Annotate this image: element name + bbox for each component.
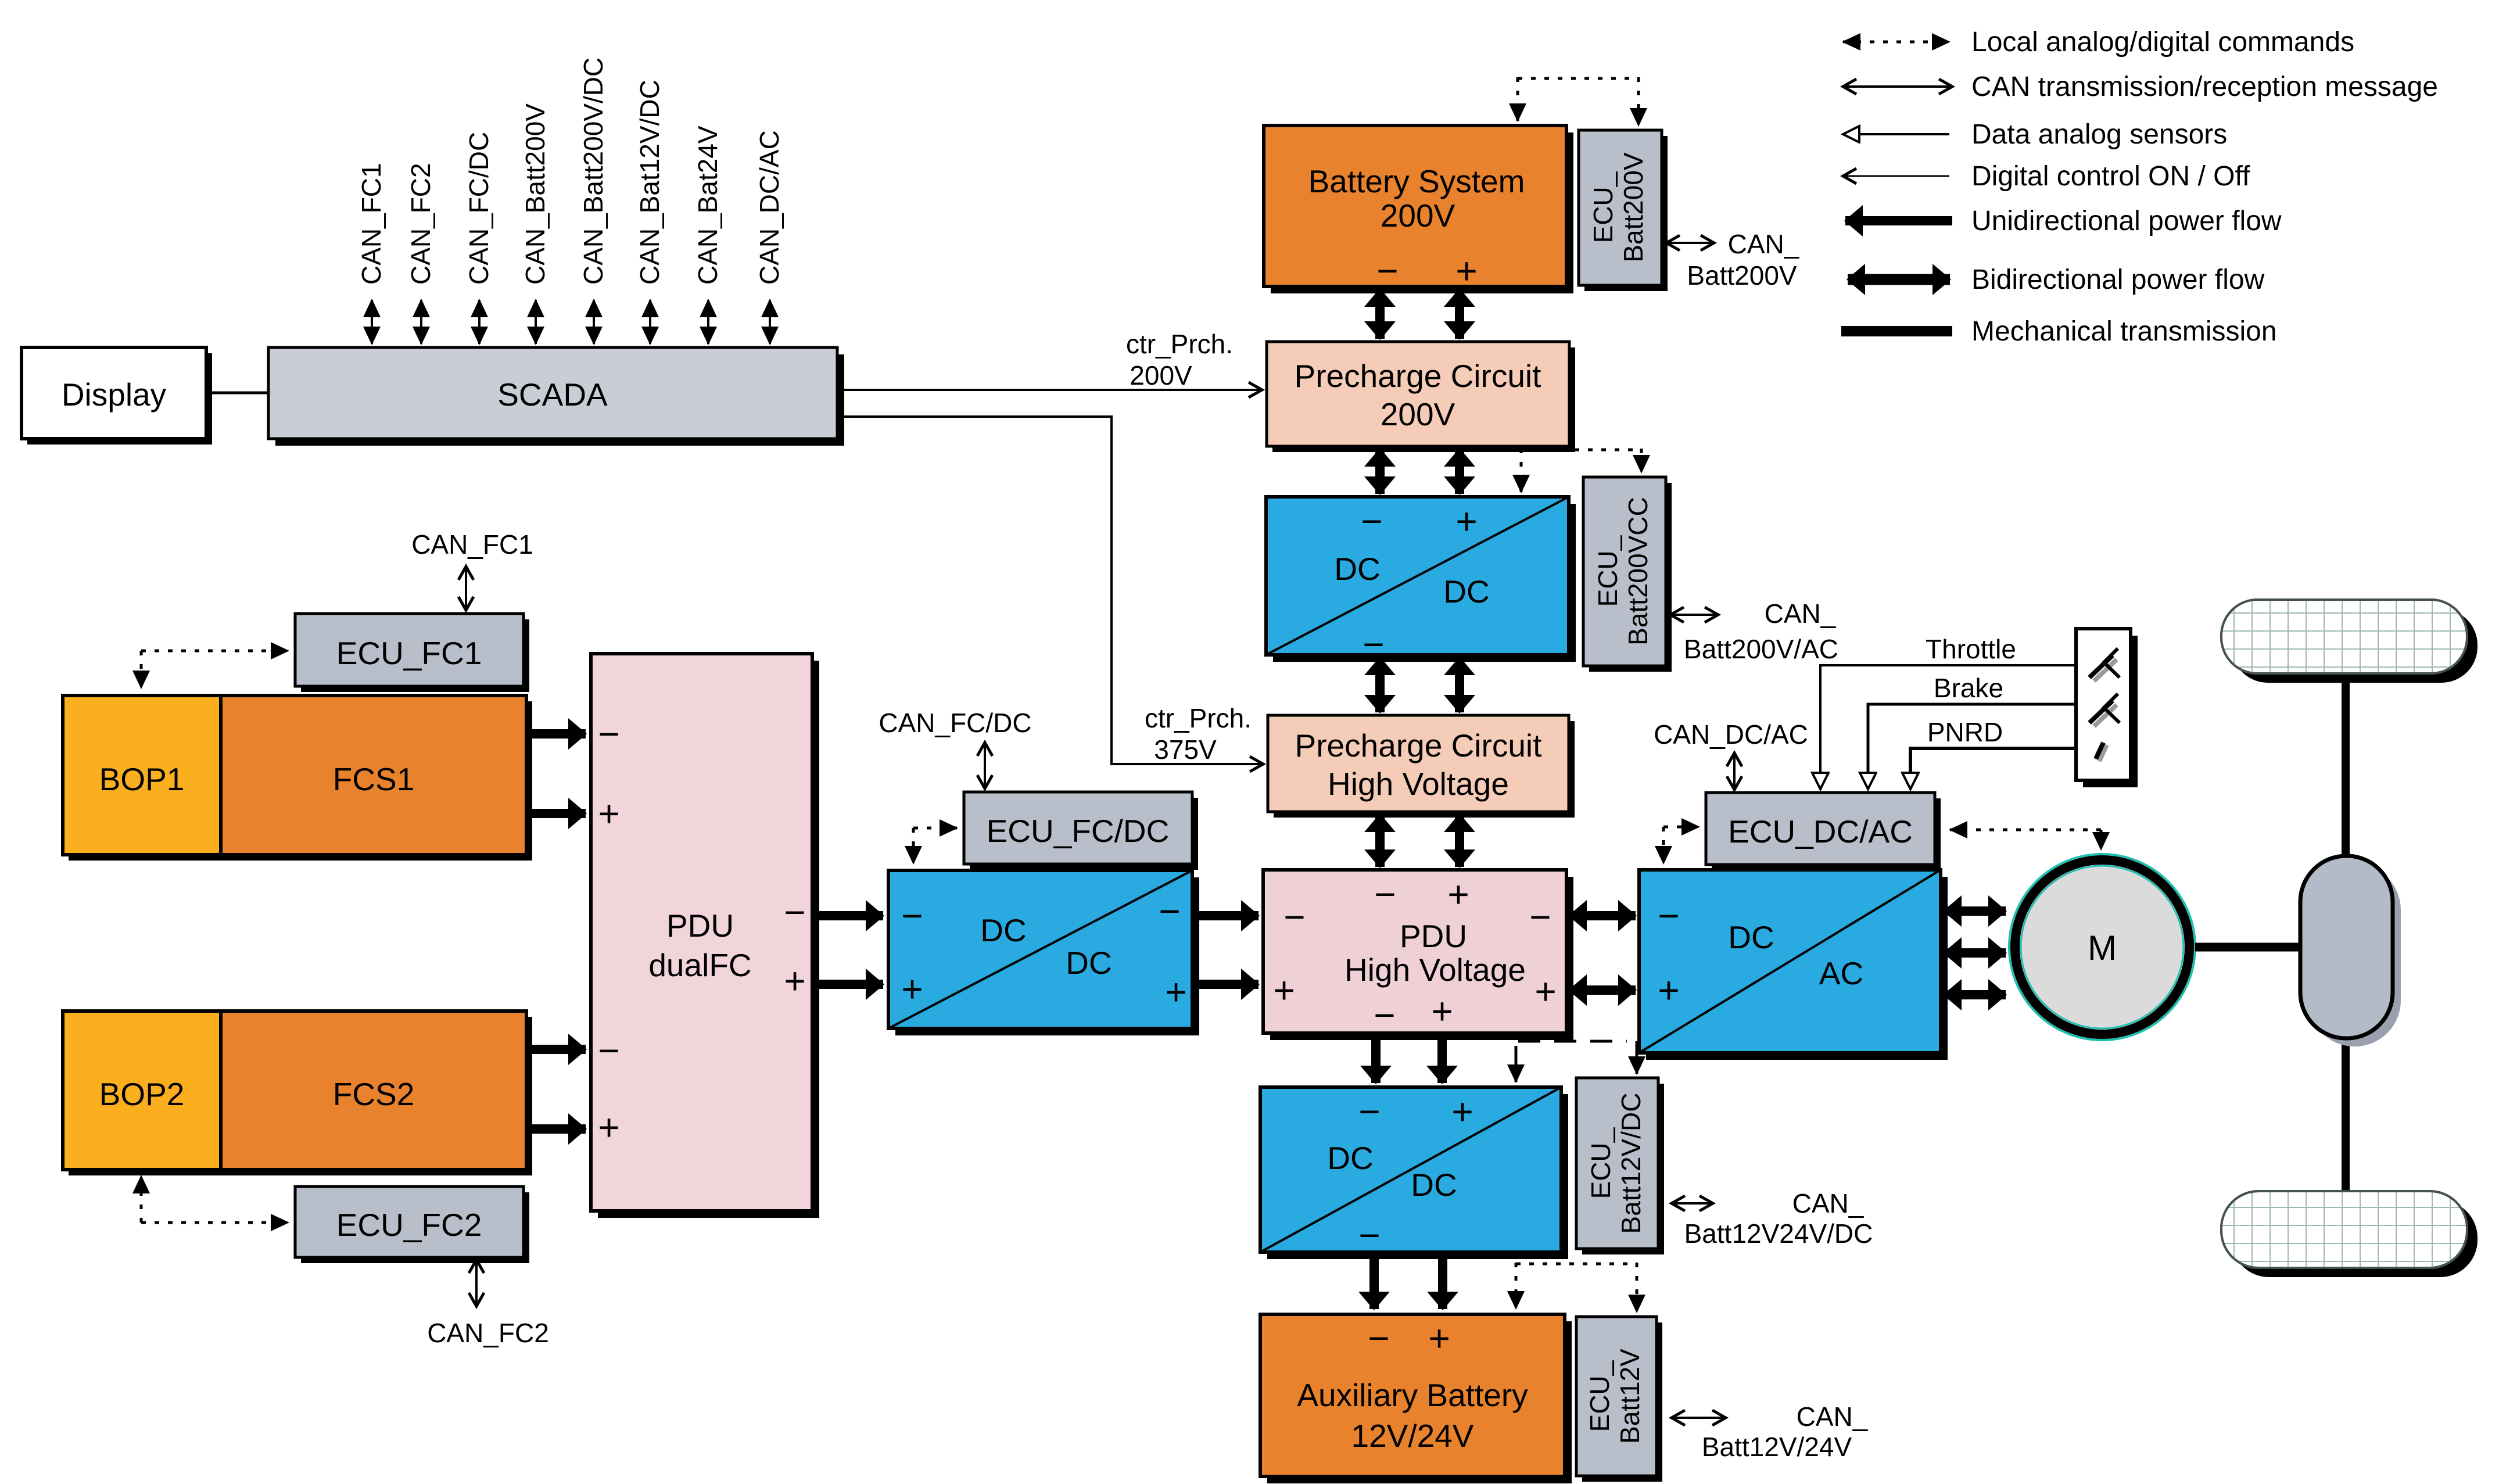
arrow: CAN_FC1 to ECU_FC1: [465, 567, 467, 610]
wheel front: [2221, 600, 2478, 683]
svg-text:Batt12V: Batt12V: [1615, 1349, 1645, 1444]
svg-text:375V: 375V: [1154, 734, 1217, 765]
block: Auxiliary Battery 12V/24V: [1260, 1314, 1572, 1483]
arrow: DC/DC 12V down to auxiliary battery right: [1438, 1259, 1447, 1309]
block: BOP2: [63, 1011, 532, 1175]
arrow: CAN_Batt200V/DC bus at SCADA: [593, 300, 595, 344]
arrow: CAN_FC2 bus at SCADA: [420, 300, 422, 344]
block: Precharge Circuit 200V: [1267, 342, 1575, 452]
svg-text:+: +: [784, 960, 805, 1002]
svg-text:Digital control ON / Off: Digital control ON / Off: [1971, 161, 2250, 192]
svg-text:Batt12V/DC: Batt12V/DC: [1616, 1093, 1646, 1234]
arrow: precharge 200V to DC/DC battery bidirectional left: [1375, 449, 1385, 494]
svg-text:CAN_FC/DC: CAN_FC/DC: [879, 708, 1031, 738]
svg-text:200V: 200V: [1381, 396, 1455, 432]
block: ECU_FC2: [295, 1187, 529, 1263]
block: ECU_FC1: [295, 614, 529, 692]
legend line: mechanical transmission: [1841, 326, 1952, 336]
svg-text:+: +: [1455, 250, 1477, 292]
block: FCS1: [221, 696, 526, 855]
wire: axle upper: [2342, 672, 2350, 856]
arrow: CAN_DC/AC bus at SCADA: [769, 300, 771, 344]
svg-text:Battery System: Battery System: [1308, 163, 1525, 199]
arrow: DC/DC 12V down to auxiliary battery left: [1369, 1259, 1379, 1309]
svg-text:+: +: [901, 968, 923, 1010]
arrow: FCS2 negative to PDU dualFC: [526, 1045, 586, 1054]
label: CAN_Batt200V: [1687, 229, 1799, 291]
label: ctr_Prch. 200V: [1126, 329, 1233, 390]
svg-text:+: +: [598, 1106, 619, 1148]
block: ECU_Batt12V/DC: [1576, 1078, 1664, 1254]
arrow: battery to precharge 200V bidirectional left: [1375, 289, 1385, 339]
svg-text:ECU_: ECU_: [1584, 1360, 1615, 1432]
svg-text:Brake: Brake: [1934, 673, 2003, 703]
arrow: ECU_Batt200VCC CAN link: [1670, 614, 1718, 616]
arrow: CAN_DC/AC to ECU_DC/AC: [1733, 753, 1736, 790]
svg-text:−: −: [901, 895, 923, 937]
block: ECU_Batt12V: [1576, 1317, 1662, 1482]
svg-text:Mechanical transmission: Mechanical transmission: [1971, 316, 2277, 347]
label: CAN_Batt200V/AC: [1684, 598, 1838, 664]
svg-text:CAN_DC/AC: CAN_DC/AC: [1654, 719, 1808, 750]
legend arrow: data analog sensors: [1843, 133, 1949, 135]
svg-text:CAN_FC/DC: CAN_FC/DC: [464, 132, 494, 285]
block: PDU dualFC: [591, 654, 819, 1218]
svg-text:−: −: [784, 891, 805, 933]
legend arrow: CAN transmission/reception: [1843, 85, 1952, 88]
svg-text:Precharge Circuit: Precharge Circuit: [1295, 358, 1541, 394]
svg-text:−: −: [598, 1030, 619, 1071]
arrow: ECU_FC2 to CAN_FC2: [475, 1260, 478, 1306]
svg-text:ECU_: ECU_: [1593, 535, 1623, 607]
svg-text:−: −: [1529, 896, 1551, 938]
svg-text:CAN_FC1: CAN_FC1: [411, 529, 533, 560]
svg-text:Precharge Circuit: Precharge Circuit: [1295, 727, 1542, 763]
svg-text:200V: 200V: [1381, 198, 1455, 234]
wire: throttle signal to ECU_DC/AC: [1820, 665, 2076, 789]
svg-text:PNRD: PNRD: [1927, 717, 2003, 747]
svg-text:Batt200VCC: Batt200VCC: [1623, 497, 1653, 646]
svg-text:DC: DC: [1411, 1167, 1457, 1203]
svg-text:+: +: [1451, 1091, 1473, 1132]
svg-text:CAN_FC2: CAN_FC2: [406, 163, 436, 285]
arrow: FCS1 positive to PDU dualFC: [526, 809, 586, 818]
svg-text:+: +: [1165, 971, 1186, 1013]
label: CAN_Batt12V24V/DC: [1684, 1188, 1873, 1249]
svg-text:CAN_: CAN_: [1792, 1188, 1865, 1218]
svg-text:CAN_Bat12V/DC: CAN_Bat12V/DC: [634, 80, 665, 285]
svg-text:200V: 200V: [1130, 360, 1192, 390]
wire: mechanical shaft motor to differential: [2195, 943, 2300, 952]
svg-text:−: −: [1368, 1317, 1389, 1359]
svg-text:+: +: [1447, 873, 1469, 915]
arrow: DC/DC FC plus to PDU HV: [1192, 980, 1259, 989]
arrow: battery to precharge 200V bidirectional right: [1455, 289, 1464, 339]
svg-text:DC: DC: [1728, 919, 1774, 955]
svg-text:Batt200V/AC: Batt200V/AC: [1684, 634, 1838, 664]
block: ECU_FC/DC: [964, 792, 1198, 870]
svg-text:Unidirectional power flow: Unidirectional power flow: [1971, 206, 2282, 236]
arrow: CAN_Bat12V/DC bus at SCADA: [649, 300, 651, 344]
arrow: precharge HV to PDU HV bidirectional right: [1455, 815, 1464, 867]
svg-text:Batt12V24V/DC: Batt12V24V/DC: [1684, 1218, 1873, 1249]
svg-text:−: −: [1374, 873, 1396, 915]
block: ECU_Batt200VCC: [1583, 477, 1672, 672]
svg-text:BOP1: BOP1: [99, 761, 185, 797]
block: DC/DC converter 12V: [1260, 1087, 1568, 1259]
svg-text:CAN_DC/AC: CAN_DC/AC: [754, 130, 784, 285]
svg-text:Auxiliary Battery: Auxiliary Battery: [1297, 1377, 1528, 1413]
svg-text:−: −: [1283, 896, 1305, 938]
svg-text:+: +: [598, 793, 619, 834]
block: ECU_DC/AC: [1706, 793, 1941, 870]
wire: axle lower: [2342, 1038, 2350, 1196]
arrow: DC/AC to motor phase 3: [1944, 990, 2006, 999]
svg-text:dualFC: dualFC: [648, 947, 751, 983]
wire: dotted command to DC/DC battery and ECU_Batt200VCC: [1521, 449, 1641, 492]
block: Display: [21, 347, 212, 445]
block: DC/DC converter battery side: [1266, 497, 1576, 665]
svg-text:Batt200V: Batt200V: [1687, 260, 1797, 291]
svg-text:ECU_FC1: ECU_FC1: [336, 635, 482, 671]
svg-text:Batt200V: Batt200V: [1618, 152, 1648, 263]
svg-text:+: +: [1431, 990, 1453, 1032]
arrow: PDU HV to DC/AC bidirectional minus: [1569, 911, 1636, 920]
arrow: CAN_Bat24V bus at SCADA: [707, 300, 709, 344]
svg-text:High Voltage: High Voltage: [1344, 952, 1526, 988]
svg-text:ECU_: ECU_: [1586, 1127, 1616, 1199]
svg-text:+: +: [1273, 969, 1295, 1011]
wire: ctr_Prch 375V control line: [837, 417, 1263, 764]
wire: dotted command to ECU_FC/DC: [913, 828, 957, 863]
svg-text:−: −: [1376, 250, 1398, 292]
svg-text:High Voltage: High Voltage: [1328, 766, 1509, 802]
svg-text:DC: DC: [1066, 945, 1112, 981]
svg-text:ECU_FC/DC: ECU_FC/DC: [987, 813, 1170, 849]
svg-text:DC: DC: [1327, 1140, 1373, 1176]
wire: dotted command to Battery System and ECU_Batt200V: [1518, 77, 1638, 126]
svg-text:DC: DC: [1443, 573, 1489, 610]
arrow: PDU dualFC minus to DC/DC FC: [812, 911, 883, 920]
svg-text:−: −: [1358, 1091, 1380, 1132]
motor M: [2009, 854, 2195, 1040]
arrow: PDU HV down to DC/DC 12V right: [1437, 1040, 1447, 1083]
arrow: PDU HV to DC/AC bidirectional plus: [1569, 985, 1636, 995]
block: pedal unit: [2076, 629, 2138, 787]
arrow: ECU_Batt200V CAN link: [1666, 242, 1714, 244]
svg-text:Bidirectional power flow: Bidirectional power flow: [1971, 264, 2265, 295]
arrow: CAN_Batt200V bus at SCADA: [535, 300, 537, 344]
arrow: CAN_FC/DC bus at SCADA: [478, 300, 481, 344]
svg-text:Display: Display: [62, 377, 167, 413]
wire: Display to SCADA: [206, 392, 268, 395]
block: BOP1: [63, 696, 532, 861]
legend arrow: unidirectional power flow: [1845, 216, 1952, 225]
arrow: ECU_Batt12V CAN link: [1672, 1417, 1726, 1419]
svg-text:12V/24V: 12V/24V: [1351, 1418, 1473, 1454]
legend arrow: digital control: [1843, 175, 1949, 177]
block: FCS2: [221, 1011, 526, 1170]
legend arrow: local analog/digital commands: [1843, 41, 1949, 44]
svg-text:ctr_Prch.: ctr_Prch.: [1126, 329, 1233, 359]
wire: PNRD signal to ECU_DC/AC: [1910, 748, 2076, 789]
arrow: DC/DC battery to precharge HV bidirectional left: [1375, 658, 1385, 712]
block: DC/DC converter fuel cell side: [888, 870, 1199, 1035]
svg-text:Throttle: Throttle: [1926, 634, 2016, 664]
arrow: FCS1 negative to PDU dualFC: [526, 729, 586, 739]
arrow: CAN_FC/DC to ECU_FC/DC: [984, 743, 986, 788]
svg-text:−: −: [1159, 890, 1180, 932]
arrow: DC/AC to motor phase 1: [1944, 906, 2006, 916]
svg-text:−: −: [1358, 1214, 1380, 1256]
block: ECU_Batt200V: [1579, 130, 1668, 291]
svg-text:ECU_FC2: ECU_FC2: [336, 1207, 482, 1243]
arrow: FCS2 positive to PDU dualFC: [526, 1124, 586, 1134]
svg-text:DC: DC: [980, 912, 1026, 948]
block: PDU High Voltage: [1263, 870, 1573, 1040]
arrow: PDU HV down to DC/DC 12V left: [1371, 1040, 1381, 1083]
block: Precharge Circuit High Voltage: [1268, 715, 1575, 818]
wire: dashed command to DC/DC 12V and ECU_Batt12V/DC: [1516, 1041, 1637, 1082]
svg-text:+: +: [1455, 500, 1477, 542]
svg-text:Local analog/digital commands: Local analog/digital commands: [1971, 27, 2354, 58]
block: DC/AC inverter: [1639, 870, 1948, 1060]
arrow: CAN_FC1 bus at SCADA: [371, 300, 373, 344]
svg-text:FCS2: FCS2: [333, 1076, 415, 1112]
svg-text:CAN_: CAN_: [1765, 598, 1837, 629]
svg-text:+: +: [1428, 1317, 1450, 1359]
label: ctr_Prch. 375V: [1145, 703, 1252, 765]
wire: dotted command BOP1 to ECU_FC1: [141, 651, 288, 688]
arrow: DC/DC battery to precharge HV bidirectional right: [1455, 658, 1464, 712]
wire: dotted command to ECU_DC/AC and DC/AC: [1663, 827, 1699, 863]
svg-text:Data analog sensors: Data analog sensors: [1971, 119, 2227, 150]
wire: ctr_Prch 200V control line: [837, 389, 1262, 391]
svg-text:M: M: [2088, 929, 2117, 967]
svg-text:Batt12V/24V: Batt12V/24V: [1702, 1432, 1852, 1462]
wire: brake signal to ECU_DC/AC: [1868, 704, 2076, 789]
svg-text:CAN_Bat24V: CAN_Bat24V: [693, 126, 723, 285]
svg-text:AC: AC: [1819, 955, 1863, 991]
svg-text:CAN_: CAN_: [1728, 229, 1800, 259]
legend arrow: bidirectional power flow: [1848, 274, 1950, 285]
svg-text:CAN_Batt200V: CAN_Batt200V: [520, 103, 550, 285]
arrow: PDU dualFC plus to DC/DC FC: [812, 980, 883, 989]
svg-text:BOP2: BOP2: [99, 1076, 185, 1112]
arrow: DC/AC to motor phase 2: [1944, 948, 2006, 958]
wire: dotted command BOP2 to ECU_FC2: [141, 1176, 288, 1223]
wire: dotted command ECU_DC/AC to motor: [1950, 830, 2101, 849]
block: Battery System 200V: [1264, 126, 1573, 293]
svg-text:−: −: [1658, 895, 1679, 937]
svg-text:CAN_FC2: CAN_FC2: [427, 1318, 549, 1348]
svg-text:ctr_Prch.: ctr_Prch.: [1145, 703, 1252, 733]
svg-text:CAN_: CAN_: [1797, 1401, 1869, 1432]
svg-text:+: +: [1534, 970, 1556, 1012]
svg-text:PDU: PDU: [1400, 918, 1467, 954]
svg-text:−: −: [1361, 500, 1382, 542]
svg-text:CAN_Batt200V/DC: CAN_Batt200V/DC: [578, 58, 608, 285]
block: SCADA: [268, 347, 844, 446]
svg-text:PDU: PDU: [666, 908, 734, 944]
svg-text:+: +: [1658, 969, 1679, 1011]
arrow: ECU_Batt12V/DC CAN link: [1672, 1202, 1713, 1205]
arrow: DC/DC FC minus to PDU HV: [1192, 911, 1259, 920]
wire: dotted command to auxiliary battery and ECU_Batt12V: [1516, 1263, 1637, 1312]
arrow: precharge HV to PDU HV bidirectional left: [1375, 815, 1385, 867]
differential: [2300, 856, 2401, 1046]
wheel rear: [2221, 1191, 2478, 1277]
svg-text:CAN transmission/reception mes: CAN transmission/reception message: [1971, 71, 2438, 102]
arrow: precharge 200V to DC/DC battery bidirectional right: [1455, 449, 1464, 494]
svg-text:CAN_FC1: CAN_FC1: [356, 163, 386, 285]
svg-text:DC: DC: [1334, 551, 1380, 587]
svg-text:−: −: [598, 713, 619, 755]
label: CAN_Batt12V/24V: [1702, 1401, 1869, 1462]
svg-text:ECU_: ECU_: [1588, 171, 1618, 243]
svg-text:FCS1: FCS1: [333, 761, 415, 797]
svg-text:SCADA: SCADA: [497, 377, 608, 413]
svg-text:ECU_DC/AC: ECU_DC/AC: [1728, 813, 1913, 849]
svg-text:−: −: [1374, 994, 1395, 1036]
